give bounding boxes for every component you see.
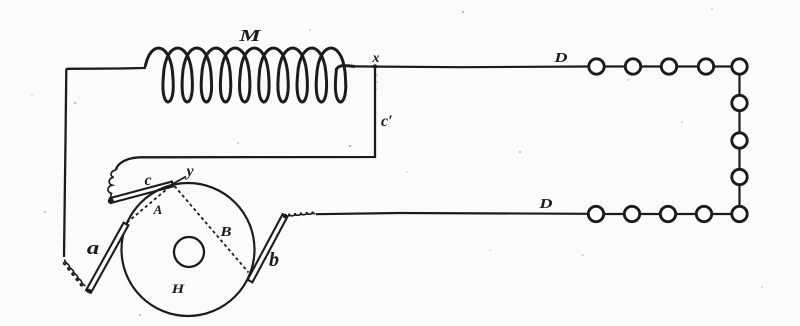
battery cell top 1 xyxy=(589,59,604,74)
svg-text:H: H xyxy=(171,282,185,296)
svg-text:c′: c′ xyxy=(381,113,393,130)
contact tip beyond y xyxy=(173,177,187,185)
end dot of bar c xyxy=(108,198,114,204)
battery cell top 3 xyxy=(661,59,676,74)
spring squiggle left wire to bar a xyxy=(64,260,86,287)
inductor coil M xyxy=(145,48,354,102)
svg-text:A: A xyxy=(153,202,163,217)
wire: branch from x down to c' and left to contact xyxy=(116,67,375,171)
dashed line A xyxy=(127,187,170,223)
battery cell bottom 3 xyxy=(660,206,675,221)
brush bar b xyxy=(248,214,288,282)
svg-text:x: x xyxy=(372,51,380,66)
svg-text:D: D xyxy=(538,196,553,212)
wire: coil end through node x to battery chain xyxy=(354,65,588,68)
bar b top tip xyxy=(283,214,288,219)
brush bar a xyxy=(86,223,128,293)
battery chain connecting segments bottom xyxy=(588,213,740,215)
svg-text:a: a xyxy=(87,237,99,259)
battery cell corner bottom-right xyxy=(732,206,747,221)
battery cell right 3 xyxy=(732,169,747,184)
wheel hub circle xyxy=(174,237,204,267)
squiggle bar b to bottom wire xyxy=(287,212,316,216)
battery cell right 2 xyxy=(732,133,747,148)
battery cell bottom 2 xyxy=(624,206,639,221)
svg-text:D: D xyxy=(553,50,568,66)
node x junction dot xyxy=(373,64,377,68)
svg-text:B: B xyxy=(219,224,231,239)
spring squiggle above contact c xyxy=(108,170,116,197)
dashed line B xyxy=(175,186,249,273)
wire: bottom to battery chain xyxy=(316,213,588,214)
battery cell top 4 xyxy=(698,59,713,74)
wheel H outer circle xyxy=(122,183,255,316)
battery cell top 5 xyxy=(732,59,747,74)
battery cell bottom 4 xyxy=(696,206,711,221)
bar a lower tip xyxy=(87,289,92,294)
svg-text:b: b xyxy=(269,249,279,271)
svg-text:y: y xyxy=(184,163,194,180)
battery chain connecting segments top xyxy=(588,65,740,67)
battery chain connecting segments right xyxy=(738,67,740,215)
battery cell bottom 1 xyxy=(588,206,603,221)
wire: left vertical and top horizontal to coil xyxy=(64,68,146,257)
battery cell right 1 xyxy=(732,95,747,110)
contact spring bar c xyxy=(110,182,173,203)
svg-text:c: c xyxy=(144,172,151,189)
battery cell top 2 xyxy=(625,59,640,74)
svg-text:M: M xyxy=(238,27,261,45)
